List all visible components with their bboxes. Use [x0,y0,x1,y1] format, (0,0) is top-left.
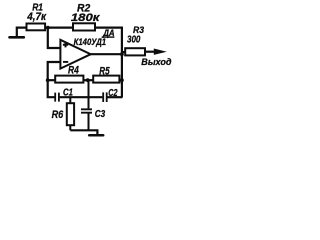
svg-text:C2: C2 [108,87,117,99]
underline of DA [102,36,115,37]
wire node to R3 [122,51,125,53]
svg-text:К140УД1: К140УД1 [74,37,107,48]
capacitor C2 plates [103,92,107,102]
svg-text:C1: C1 [63,88,73,99]
svg-text:Выход: Выход [141,57,172,67]
wire R6 bottom lead [69,125,71,130]
wire node to R2 [48,27,73,29]
wire C2 to output column [107,96,122,98]
wire output node down to C2 [121,54,123,97]
resistor R4 [55,76,83,83]
node output junction [120,52,124,56]
wire op-amp output [91,53,123,55]
ground [89,134,103,137]
input terminal bar [10,36,24,39]
svg-text:R4: R4 [68,65,79,77]
resistor R2 [73,23,95,30]
node - input / R4 junction [46,78,50,82]
resistor R6 [67,103,74,125]
wire R5 to output column [119,79,122,81]
resistor R3 [125,48,145,55]
wire bottom to ground [70,130,97,135]
svg-text:C3: C3 [95,109,106,120]
output arrowhead [154,49,167,55]
input terminal stem wire [17,28,27,38]
resistor R1 [27,24,46,31]
wire R3 to arrow [145,51,159,53]
svg-text:180к: 180к [71,12,101,24]
capacitor C3 plates [81,109,92,112]
wire node to R4 [48,79,56,81]
node R4/R5 junction [86,78,90,82]
wire R2 right feedback down to output node [95,28,122,55]
svg-text:R5: R5 [99,66,110,78]
wire R1 to node to op-amp + input [45,28,61,48]
op-amp - input sign [63,61,68,63]
wire op-amp - input left and down to C1 [48,62,61,97]
node R5/C2 column junction [120,78,124,82]
wire C3 bottom lead [88,113,90,130]
op-amp + input sign [63,42,68,47]
resistor R5 [93,76,119,83]
wire R4R5 node down to C3 [88,80,90,108]
op-amp U1 triangle [60,40,90,69]
wire R4 to R5 [83,79,93,81]
capacitor C1 plates [55,93,59,102]
svg-text:300: 300 [127,34,141,45]
svg-text:R6: R6 [52,109,64,121]
wire C1 to C2 [60,96,103,98]
node input/R2 junction [46,26,50,30]
svg-text:4,7к: 4,7к [26,11,47,23]
wire R6 top lead [69,97,71,103]
